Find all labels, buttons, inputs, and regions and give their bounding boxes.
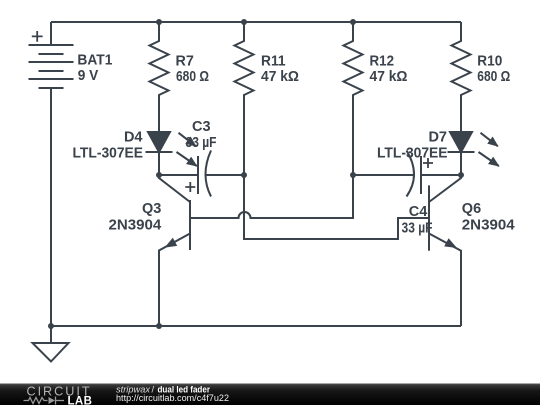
label R12 value xyxy=(370,53,408,85)
label Q3 value xyxy=(109,201,162,234)
svg-text:D4: D4 xyxy=(124,129,143,145)
svg-text:R12: R12 xyxy=(370,53,395,69)
node B (R11/C3/Q6 base) xyxy=(241,172,247,178)
transistor Q3 xyxy=(159,175,190,326)
svg-text:33 µF: 33 µF xyxy=(402,221,433,237)
wire bottom rail xyxy=(51,325,461,327)
footer logo resistor glyph xyxy=(24,397,65,405)
wire battery negative lead down left side xyxy=(50,88,52,326)
battery BAT1 xyxy=(29,31,74,88)
node C (R12/C4/Q3 base) xyxy=(350,172,356,178)
svg-text:LAB: LAB xyxy=(68,395,93,405)
label BAT1 value xyxy=(77,52,112,84)
svg-text:D7: D7 xyxy=(428,129,447,145)
resistor R7 xyxy=(150,22,169,132)
node D (D7/C4/Q6 collector) xyxy=(458,172,464,178)
svg-text:33 µF: 33 µF xyxy=(186,135,217,151)
wire battery positive lead xyxy=(50,22,52,45)
label C4 value xyxy=(402,204,433,237)
svg-text:LTL-307EE: LTL-307EE xyxy=(73,145,144,161)
wire node R11 down to Q6 base xyxy=(244,175,429,239)
svg-text:Q6: Q6 xyxy=(462,201,481,217)
svg-text:C3: C3 xyxy=(192,119,211,135)
label C3 value xyxy=(186,119,217,151)
svg-text:2N3904: 2N3904 xyxy=(109,218,162,234)
node Q3 emitter junction xyxy=(156,323,162,329)
svg-text:2N3904: 2N3904 xyxy=(462,218,515,234)
svg-text:Q3: Q3 xyxy=(142,201,161,217)
label D4 value xyxy=(73,129,144,161)
label D7 value xyxy=(377,129,448,161)
footer bar xyxy=(0,383,540,405)
node top R7 xyxy=(156,19,162,25)
svg-text:BAT1: BAT1 xyxy=(77,52,112,68)
capacitor C4 xyxy=(353,151,461,197)
wire top rail xyxy=(51,21,461,23)
svg-text:680 Ω: 680 Ω xyxy=(176,69,209,85)
LED D7 xyxy=(448,132,499,175)
svg-text:R7: R7 xyxy=(176,53,194,69)
node top R12 xyxy=(350,19,356,25)
capacitor C3 xyxy=(159,151,244,197)
footer credit line xyxy=(116,385,210,396)
ground xyxy=(33,326,69,362)
svg-text:LTL-307EE: LTL-307EE xyxy=(377,145,448,161)
svg-text:9 V: 9 V xyxy=(78,68,99,84)
svg-text:R10: R10 xyxy=(477,53,502,69)
svg-text:47 kΩ: 47 kΩ xyxy=(370,69,408,85)
transistor Q6 xyxy=(429,175,461,326)
label R10 value xyxy=(477,53,510,85)
LED D4 xyxy=(146,132,197,175)
svg-text:http://circuitlab.com/c4f7u22: http://circuitlab.com/c4f7u22 xyxy=(116,393,229,404)
label R7 value xyxy=(176,53,210,85)
node top R11 xyxy=(241,19,247,25)
resistor R12 xyxy=(344,22,363,175)
svg-text:680 Ω: 680 Ω xyxy=(477,69,510,85)
node ground junction xyxy=(48,323,54,329)
label Q6 value xyxy=(462,201,515,234)
svg-text:47 kΩ: 47 kΩ xyxy=(261,69,299,85)
node A (D4/C3/Q3 collector) xyxy=(156,172,162,178)
resistor R11 xyxy=(235,22,254,175)
svg-text:C4: C4 xyxy=(409,204,428,220)
label R11 value xyxy=(261,53,299,85)
svg-text:R11: R11 xyxy=(261,53,286,69)
wire Q3 base to node R12 with hop xyxy=(190,175,353,218)
resistor R10 xyxy=(452,22,471,132)
